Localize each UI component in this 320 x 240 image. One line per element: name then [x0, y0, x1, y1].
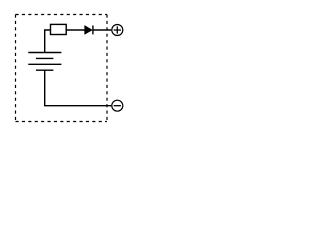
negative terminal - [112, 100, 123, 111]
enclosure dashed box [16, 15, 108, 122]
wire battery top to resistor [45, 30, 51, 53]
battery BT1 [28, 53, 61, 71]
wire battery bottom to negative terminal [45, 70, 112, 106]
positive terminal + [112, 25, 123, 36]
diode D1 [85, 26, 93, 35]
resistor R1 [51, 24, 67, 34]
wire diode to positive terminal [93, 29, 112, 31]
wire resistor to diode [66, 29, 85, 31]
